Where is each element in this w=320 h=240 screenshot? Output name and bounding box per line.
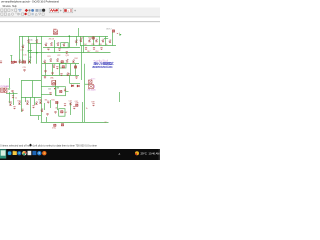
junction	[36, 52, 37, 53]
transistor X35	[73, 59, 75, 62]
capacitor X47	[49, 93, 51, 95]
wire h y83.5	[70, 83, 80, 85]
wire v x34	[34, 97, 36, 105]
part X76	[54, 124, 56, 126]
capacitor X72	[54, 111, 56, 113]
svg-text:R14: R14	[89, 37, 92, 39]
svg-text:1k: 1k	[86, 108, 88, 110]
toolbar row2 red dot	[24, 13, 26, 15]
toolbar row1 red diamond icon	[25, 9, 28, 12]
part X16	[112, 30, 114, 32]
transistor X3	[45, 43, 47, 46]
resistor RA stacked boxes	[89, 80, 93, 84]
taskbar	[0, 149, 160, 160]
taskbar start	[8, 151, 12, 155]
wire h y80.6	[21, 80, 41, 82]
toolbar row2 icons	[1, 13, 24, 15]
capacitor X37	[56, 67, 58, 69]
taskbar app thumbnail	[0, 149, 6, 158]
wire v x55.2	[55, 80, 57, 96]
taskbar app blue circle	[37, 151, 41, 155]
wire v x76.7	[76, 36, 78, 46]
wire v x41.5	[41, 36, 43, 122]
part outline box U1	[61, 43, 68, 48]
svg-text:3k3: 3k3	[45, 100, 48, 102]
transistor X42	[67, 72, 69, 75]
transistor X8	[28, 39, 30, 42]
transistor X68	[70, 102, 72, 105]
svg-text:R2: R2	[29, 57, 31, 59]
svg-text:1k0: 1k0	[48, 88, 51, 90]
capacitor X66	[73, 107, 75, 109]
svg-text:4x7: 4x7	[65, 112, 68, 114]
capacitor X52	[23, 69, 25, 71]
svg-text:C37: C37	[69, 101, 72, 103]
wire v x44	[44, 103, 46, 110]
taskbar chrome	[22, 151, 26, 155]
transistor X27	[21, 60, 23, 63]
wire h y45.6	[80, 45, 116, 47]
toolbar sim box 1	[49, 8, 59, 13]
part X69	[76, 104, 78, 106]
wire v x11.4	[11, 56, 13, 61]
wire v x36.8	[36, 36, 38, 64]
wire v x19.8	[19, 36, 21, 64]
transistor X36	[53, 64, 55, 67]
transistor X10	[36, 39, 38, 42]
wire v x21	[21, 81, 23, 97]
toolbar background	[0, 8, 160, 18]
svg-text:1k: 1k	[106, 44, 108, 46]
part X67	[56, 101, 58, 103]
wire h y50.9	[29, 50, 33, 52]
svg-text:R21: R21	[48, 56, 51, 58]
part outline box U2	[60, 63, 66, 68]
svg-text:C23: C23	[23, 67, 26, 69]
part X24	[11, 61, 13, 63]
transistor X26	[19, 60, 21, 63]
transistor X57	[10, 102, 12, 105]
svg-text:Left click to select to data t: Left click to select to data then to tim…	[33, 144, 98, 147]
wire v x21	[21, 97, 23, 112]
wire v x78	[78, 28, 80, 36]
wire v x25.5	[25, 97, 27, 102]
battery X54	[4, 88, 7, 92]
wire h y75.3	[42, 75, 79, 77]
connector J2	[117, 32, 120, 35]
svg-text:R17: R17	[87, 51, 90, 53]
wire v x22.3	[22, 36, 24, 64]
wire v x112.2	[112, 32, 114, 46]
wire v x105.3	[105, 36, 107, 46]
capacitor X46	[75, 77, 77, 79]
taskbar folder	[13, 151, 17, 155]
wire v x50	[50, 100, 52, 108]
svg-text:0 items selected and off such: 0 items selected and off such	[0, 144, 33, 147]
svg-text:►J: ►J	[117, 32, 120, 35]
capacitor X20	[100, 48, 102, 50]
capacitor X40	[51, 72, 53, 74]
taskbar doc	[28, 151, 32, 155]
wire v x57	[57, 102, 59, 110]
wire v x30.8	[30, 44, 32, 64]
capacitor X73	[64, 104, 66, 106]
capacitor X23	[0, 61, 2, 63]
part big X45	[52, 80, 56, 85]
transistor X29	[29, 60, 31, 63]
wire v x28.2	[28, 36, 30, 64]
part X38	[62, 66, 64, 68]
capacitor X71	[46, 113, 48, 115]
svg-text:1k: 1k	[15, 98, 17, 100]
wire v x82	[82, 102, 84, 122]
capacitor X18	[85, 48, 87, 50]
transistor X59	[27, 101, 29, 104]
wire v x83.5	[83, 36, 85, 53]
svg-text:C22: C22	[57, 55, 60, 57]
wire v x46	[46, 117, 48, 122]
svg-text:R39: R39	[92, 101, 95, 103]
svg-text:R24: R24	[75, 58, 78, 60]
label tick	[93, 85, 95, 88]
wire v x9	[9, 78, 11, 88]
capacitor X55	[11, 90, 13, 92]
svg-text:A: A	[119, 152, 121, 156]
wire h y94.2	[41, 94, 52, 96]
junction	[28, 50, 29, 51]
transistor X17	[109, 39, 111, 42]
transistor X5	[57, 42, 59, 45]
svg-text:10:46 AM: 10:46 AM	[149, 152, 160, 156]
transistor X6	[63, 43, 65, 46]
junction dot	[54, 88, 55, 89]
transistor X4	[51, 42, 53, 45]
capacitor X2	[66, 52, 68, 54]
svg-text:ore-amplihedphone.opj sch - Or: ore-amplihedphone.opj sch - OrCAD 16.6 P…	[1, 1, 59, 4]
part pin marks	[9, 39, 111, 111]
capacitor X65	[47, 101, 49, 103]
svg-text:×: ×	[67, 9, 69, 13]
diode arrow X25	[14, 61, 16, 63]
svg-text:09.1006: 09.1006	[88, 90, 97, 92]
part big X1	[54, 30, 58, 35]
transistor X58	[19, 101, 21, 104]
transistor X13	[96, 39, 98, 42]
svg-text:C35: C35	[26, 100, 29, 102]
wire h y63.8	[42, 63, 79, 65]
svg-text:+: +	[60, 9, 62, 13]
taskbar outlook	[32, 151, 36, 155]
transistor X63	[36, 101, 38, 104]
transistor X31	[50, 58, 52, 61]
toolbar sim box 2	[63, 8, 73, 13]
part outline box U3	[56, 87, 66, 96]
window background	[0, 0, 160, 160]
wire v x84.5	[84, 64, 86, 122]
capacitor X41	[60, 74, 62, 76]
wire h y36.1	[19, 36, 108, 38]
wire h y93.2	[6, 93, 18, 95]
capacitor X51	[64, 89, 66, 91]
part X74	[61, 111, 63, 113]
wire v x99.8	[99, 36, 101, 46]
part X50	[60, 90, 62, 92]
transistor X64	[40, 100, 42, 103]
wire v x69.8	[69, 75, 71, 83]
battery X53	[1, 88, 4, 92]
wire v x81	[81, 46, 83, 80]
wire v x70	[70, 64, 72, 76]
transistor X70	[41, 108, 43, 111]
svg-text:2SC18: 2SC18	[49, 38, 54, 40]
svg-text:2N4D50 K2S DAJ34: 2N4D50 K2S DAJ34	[92, 65, 113, 69]
wire v x80.3	[80, 36, 82, 46]
svg-text:C16: C16	[99, 44, 102, 46]
svg-text:Q23: Q23	[66, 55, 69, 57]
status diamond	[29, 144, 32, 147]
capacitor CB box	[89, 85, 94, 89]
svg-text:Q5: Q5	[30, 40, 32, 42]
svg-text:R15: R15	[92, 44, 95, 46]
part X28	[23, 61, 25, 63]
wire v x45	[45, 64, 47, 76]
svg-text:R36: R36	[39, 99, 42, 101]
transistor X32	[57, 58, 59, 61]
capacitor X19	[93, 48, 95, 50]
diode arrow X48	[71, 85, 73, 87]
svg-text:+: +	[74, 9, 76, 13]
capacitor X22	[58, 49, 60, 51]
svg-text:470u: 470u	[52, 127, 56, 129]
svg-text:29°C: 29°C	[141, 152, 147, 156]
capacitor X61	[13, 107, 15, 109]
svg-text:C18: C18	[95, 51, 98, 53]
wire v x52.8	[52, 64, 54, 76]
transistor X7	[75, 39, 77, 42]
wire v x32.5	[32, 81, 34, 97]
svg-text:U1: U1	[55, 108, 57, 110]
capacitor X21	[47, 48, 49, 50]
wire v x75	[75, 64, 77, 76]
svg-text:J×××: J×××	[91, 77, 97, 80]
capacitor X56	[12, 96, 14, 98]
wire h y86.8	[41, 86, 56, 88]
wire v x59.4	[59, 64, 61, 76]
wire v x70.5	[70, 103, 72, 115]
wire h y122	[41, 122, 109, 124]
transistor X9	[22, 45, 24, 48]
transistor X34	[66, 59, 68, 62]
capacitor X60	[21, 109, 23, 111]
svg-text:Q38: Q38	[75, 102, 78, 104]
transistor X12	[89, 39, 91, 42]
wire h y47.6	[43, 47, 80, 49]
taskbar edge	[17, 151, 21, 155]
transistor X11	[80, 38, 82, 41]
svg-text:Q33: Q33	[9, 101, 12, 103]
tray weather icon	[135, 151, 139, 155]
wire v x13.5	[13, 92, 15, 105]
ground arrow	[8, 88, 10, 90]
wire v x93.4	[93, 36, 95, 46]
diode mark	[57, 86, 59, 88]
svg-text:OUT 2: OUT 2	[106, 29, 112, 31]
ruler strip	[0, 17, 160, 21]
diode arrow X49	[77, 85, 79, 87]
svg-text:4N7: 4N7	[53, 29, 56, 31]
capacitor X39	[44, 70, 46, 72]
svg-text:0.15: 0.15	[23, 55, 26, 57]
wire v x54.4	[54, 40, 56, 53]
toolbar row1 icons	[1, 9, 22, 12]
transistor X30	[44, 60, 46, 63]
taskbar firefox	[42, 151, 46, 155]
wire h y38.3	[104, 38, 108, 40]
svg-text:POWER: POWER	[1, 86, 10, 88]
wire stub	[85, 83, 89, 85]
capacitor X75	[92, 104, 94, 106]
wire h y43.9	[28, 43, 41, 45]
part X14	[92, 37, 94, 39]
wire v x9	[9, 92, 11, 103]
wire h y115.7	[30, 115, 41, 117]
svg-text:R41: R41	[52, 99, 55, 101]
wire v x30	[30, 97, 32, 116]
toolbar row1 dark circle icon	[42, 9, 45, 12]
part X77	[61, 124, 63, 126]
wire v x38.7	[38, 116, 40, 120]
part outline box U4	[59, 109, 65, 117]
part X33	[61, 61, 63, 63]
svg-text:C13: C13	[80, 37, 83, 39]
junction	[69, 35, 70, 36]
transistor X15	[102, 39, 104, 42]
capacitor X62	[32, 106, 34, 108]
svg-text:2k2: 2k2	[84, 44, 87, 46]
wire h y52.7	[29, 52, 111, 54]
wire v x69.3	[69, 36, 71, 48]
capacitor X43	[44, 76, 46, 78]
svg-text:0.15: 0.15	[20, 49, 23, 51]
svg-text:R34: R34	[18, 100, 21, 102]
wire h y97	[21, 97, 41, 99]
wire h y55.6	[10, 55, 12, 57]
part X44	[74, 66, 76, 68]
wire h y91.3	[66, 91, 69, 93]
wire v x119	[119, 92, 121, 102]
svg-text:x2: x2	[105, 122, 107, 124]
